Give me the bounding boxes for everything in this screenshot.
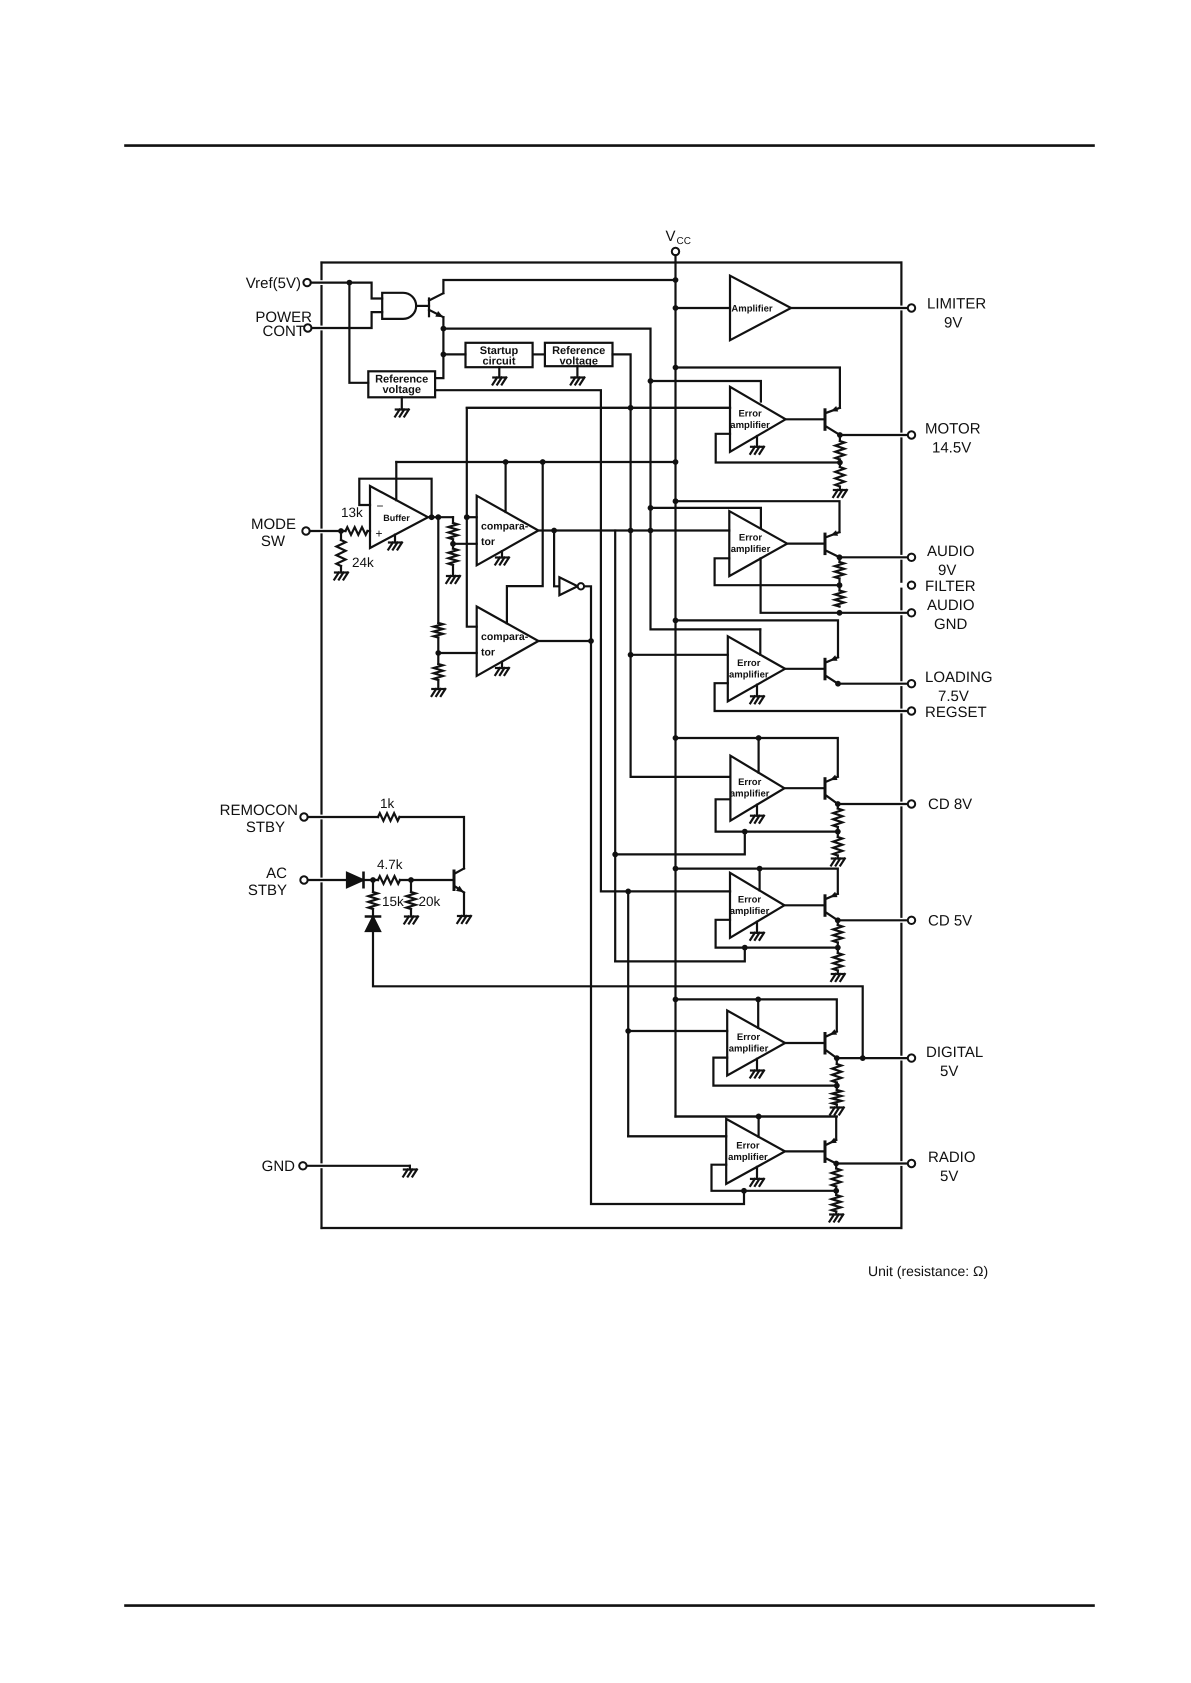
error amplifier LOADING — [728, 636, 785, 701]
wire reference entry MOTOR — [651, 381, 761, 402]
pin GND — [262, 1158, 307, 1175]
svg-text:LOADING: LOADING — [925, 669, 993, 686]
wire Vcc feed MOTOR — [676, 368, 840, 408]
resistor divider CD5V upper — [833, 920, 842, 950]
svg-text:GND: GND — [262, 1158, 296, 1175]
wire Vcc to amplifier input — [676, 307, 731, 309]
error amplifier AUDIO — [729, 511, 787, 576]
net V4: CD5V input rail down to DIGITAL / RADIO inputs — [625, 891, 726, 1136]
svg-text:20k: 20k — [419, 894, 441, 909]
wire reference entry CD8V — [756, 735, 762, 773]
node DIGITAL output junction — [860, 1055, 866, 1061]
wire Vcc feed DIGITAL — [676, 999, 837, 1031]
wire buffer output to comparator 2 input — [467, 517, 477, 627]
wire input DIGITAL — [628, 1030, 727, 1032]
wire Buffer feedback loop — [359, 479, 431, 518]
svg-text:MOTOR: MOTOR — [925, 421, 981, 438]
comparator 2 — [477, 607, 539, 676]
pin RADIO 5V — [908, 1149, 976, 1185]
svg-text:RADIO: RADIO — [928, 1149, 976, 1166]
svg-text:5V: 5V — [940, 1063, 958, 1080]
pin MODE SW — [251, 516, 310, 550]
wire reference entry DIGITAL — [755, 997, 761, 1028]
pin LOADING 7.5V — [908, 669, 993, 705]
wire MODE SW — [310, 528, 346, 534]
svg-text:voltage: voltage — [382, 384, 421, 396]
svg-text:DIGITAL: DIGITAL — [926, 1044, 983, 1061]
ground under CD8V amplifier — [750, 805, 764, 823]
wire AND output to Q1 base — [416, 305, 429, 307]
wire feedback CD8V — [716, 799, 838, 831]
wire input LOADING — [631, 654, 728, 656]
node DIGITAL output — [834, 1055, 908, 1061]
wire 1k to Q2 collector — [400, 817, 465, 869]
wire bias to buffer top — [395, 462, 397, 500]
wire reference entry CD5V — [757, 866, 763, 891]
svg-text:STBY: STBY — [248, 882, 287, 899]
ground under reference voltage (left) — [395, 397, 409, 416]
ground under Buffer — [388, 535, 402, 550]
resistor divider chain A upper — [448, 517, 457, 546]
svg-text:CONT: CONT — [263, 323, 306, 340]
pin CD 8V — [908, 796, 972, 813]
error amplifier DIGITAL — [727, 1011, 785, 1076]
svg-text:CC: CC — [677, 236, 691, 247]
pin FILTER — [908, 578, 976, 595]
node RADIO output — [833, 1161, 908, 1167]
resistor divider RADIO lower — [832, 1191, 841, 1215]
error amplifier MOTOR — [730, 387, 786, 452]
ground under LOADING amplifier — [750, 685, 764, 704]
Vcc pin — [666, 228, 691, 255]
wire buffer output to comparator 1 input — [467, 516, 477, 518]
resistor divider MOTOR lower — [835, 463, 844, 491]
node CD8V output — [835, 801, 908, 807]
svg-text:compara-: compara- — [481, 631, 529, 643]
svg-text:9V: 9V — [938, 562, 956, 579]
transistor Q2 — [454, 869, 464, 917]
wire comparator 1 output — [538, 528, 729, 534]
wire input MOTOR — [467, 407, 730, 409]
wire divider A tap to comparator 1 — [453, 543, 477, 545]
svg-text:CD 8V: CD 8V — [928, 796, 972, 813]
svg-text:V: V — [666, 228, 676, 245]
resistor divider CD5V lower — [833, 948, 842, 974]
pin REMOCON STBY — [220, 802, 308, 836]
reference voltage block (upper) — [545, 343, 613, 368]
startup circuit block — [466, 343, 533, 368]
svg-text:Error: Error — [737, 658, 761, 669]
svg-text:REMOCON: REMOCON — [220, 802, 298, 819]
svg-text:15k: 15k — [382, 894, 404, 909]
svg-text:amplifier: amplifier — [728, 1152, 768, 1163]
wire feedback AUDIO — [715, 558, 840, 585]
error amplifier CD8V — [730, 756, 785, 821]
wire comparator 1 output to inverter — [554, 531, 559, 587]
op-amp Buffer — [370, 486, 428, 548]
svg-text:CD 5V: CD 5V — [928, 913, 972, 930]
transistor AUDIO — [825, 530, 840, 557]
node AUDIO output — [837, 554, 908, 560]
ground under divider B — [432, 688, 445, 690]
ground under comparator 1 — [495, 551, 509, 564]
ground under divider MOTOR — [834, 489, 847, 491]
svg-text:13k: 13k — [341, 505, 363, 520]
diode D1 — [308, 873, 378, 887]
svg-text:GND: GND — [934, 616, 968, 633]
pin POWER CONT — [255, 309, 312, 340]
wire AUDIO ground to AUDIO GND pin — [761, 558, 908, 615]
svg-text:Error: Error — [737, 1032, 761, 1043]
svg-text:Error: Error — [738, 408, 762, 419]
wire buffer output to MOTOR error amp input — [467, 408, 730, 517]
resistor 15k — [368, 880, 404, 917]
svg-text:tor: tor — [481, 536, 495, 548]
ground under Q2 — [458, 915, 471, 917]
pin AUDIO 9V — [908, 543, 975, 579]
ground under RADIO amplifier — [750, 1167, 764, 1186]
wire feedback DIGITAL — [713, 1058, 836, 1086]
ground under divider CD5V — [832, 973, 845, 975]
svg-text:amplifier: amplifier — [730, 789, 770, 800]
wire Vcc feed AUDIO — [676, 501, 840, 532]
net V1: left ref voltage to CD5V input — [435, 390, 730, 894]
svg-text:Error: Error — [739, 533, 763, 544]
net V6: inverter output rail — [584, 586, 747, 1204]
svg-text:24k: 24k — [352, 555, 374, 570]
wire Vref to AND gate — [311, 280, 382, 299]
node Buffer output — [428, 514, 470, 520]
svg-text:−: − — [377, 499, 384, 513]
bias bus wire — [396, 459, 675, 465]
svg-text:FILTER: FILTER — [925, 578, 976, 595]
wire divider B tap to comparator 2 — [438, 652, 476, 654]
svg-text:MODE: MODE — [251, 516, 296, 533]
ground under divider A — [447, 575, 460, 577]
pin CD 5V — [908, 913, 972, 930]
transistor DIGITAL — [825, 1029, 837, 1058]
wire CD8V amp output — [784, 787, 825, 789]
svg-text:9V: 9V — [944, 315, 962, 332]
diode D2 — [366, 917, 380, 932]
pin AC STBY — [248, 865, 308, 899]
wire to startup circuit — [443, 353, 465, 355]
net V5: Q1 emitter reference rail — [443, 329, 760, 630]
svg-text:14.5V: 14.5V — [932, 440, 971, 457]
wire LOADING amp output — [785, 668, 825, 670]
resistor divider CD8V lower — [833, 832, 842, 859]
error amplifier RADIO — [726, 1119, 785, 1184]
wire input CD5V — [729, 890, 731, 892]
wire Vcc feed CD8V — [676, 738, 838, 777]
transistor LOADING — [825, 655, 838, 683]
IC block boundary — [322, 263, 902, 1229]
ground under DIGITAL amplifier — [750, 1059, 764, 1078]
ground under divider DIGITAL — [831, 1106, 844, 1108]
resistor divider AUDIO lower — [835, 585, 844, 606]
resistor 1k — [308, 796, 400, 821]
wire bias to comparator 2 top — [507, 462, 543, 623]
wire Vref to reference voltage block — [349, 283, 368, 383]
amplifier (LIMITER) — [730, 276, 791, 341]
ground under MOTOR amplifier — [750, 436, 764, 454]
svg-text:Error: Error — [736, 1140, 760, 1151]
wire DIGITAL amp output — [785, 1042, 825, 1044]
svg-text:STBY: STBY — [246, 819, 285, 836]
wire CD5V amp output — [784, 904, 825, 906]
wire POWER CONT to AND gate — [312, 312, 383, 328]
net V3: reference voltage rail down to CD8V input — [613, 354, 731, 777]
wire Vcc feed LOADING — [676, 620, 839, 657]
transistor RADIO — [825, 1138, 837, 1164]
ground under CD5V amplifier — [750, 922, 764, 940]
resistor divider AUDIO upper — [835, 557, 844, 588]
resistor divider DIGITAL lower — [832, 1086, 841, 1108]
wire feedback CD5V — [716, 920, 838, 948]
svg-text:Vref(5V): Vref(5V) — [246, 275, 301, 292]
comparator 1 — [477, 496, 539, 566]
svg-text:Buffer: Buffer — [383, 513, 410, 523]
wire D2 to DIGITAL output — [373, 931, 863, 1058]
svg-text:REGSET: REGSET — [925, 704, 987, 721]
reference voltage block (left) — [368, 371, 435, 397]
pin LIMITER 9V — [908, 296, 987, 332]
wire Q1 emitter node — [435, 317, 446, 378]
wire feedback MOTOR — [716, 434, 840, 463]
pin AUDIO GND — [908, 597, 975, 633]
AND gate — [382, 293, 416, 319]
wire reference entry AUDIO — [651, 508, 761, 528]
transistor CD5V — [825, 892, 838, 921]
wire input CD8V — [729, 776, 731, 778]
svg-text:+: + — [376, 527, 383, 541]
error amplifier CD5V — [730, 873, 785, 938]
ground under startup circuit — [493, 367, 507, 384]
ground under reference voltage (upper) — [571, 366, 585, 384]
resistor divider chain B lower — [434, 653, 443, 689]
wire Q1 collector to Vcc rail — [443, 280, 675, 293]
wire Vcc feed RADIO — [676, 1117, 837, 1140]
svg-text:7.5V: 7.5V — [938, 688, 969, 705]
wire comparator 2 output — [538, 640, 591, 642]
transistor CD8V — [825, 775, 838, 804]
resistor divider chain B upper — [434, 517, 443, 656]
wire Vcc feed CD5V — [676, 869, 838, 894]
pin MOTOR 14.5V — [908, 421, 981, 457]
resistor 24k — [336, 531, 374, 573]
resistor 4.7k — [377, 857, 454, 884]
svg-text:SW: SW — [261, 533, 286, 550]
ground under divider RADIO — [830, 1213, 843, 1215]
wire GND — [307, 1166, 410, 1170]
svg-text:amplifier: amplifier — [729, 669, 769, 680]
transistor MOTOR — [825, 406, 840, 435]
svg-text:Error: Error — [738, 777, 762, 788]
resistor divider CD8V upper — [833, 804, 842, 834]
svg-text:amplifier: amplifier — [731, 544, 771, 555]
net V2: comparator output to CD feedback taps — [612, 531, 747, 962]
wire reference entry RADIO — [756, 1114, 762, 1137]
wire bias to comparator 1 top — [505, 462, 507, 512]
resistor 13k — [341, 505, 370, 535]
wire input RADIO — [628, 1135, 726, 1137]
wire input AUDIO — [728, 529, 730, 531]
wire LOADING feedback to REGSET — [715, 683, 908, 711]
pin DIGITAL 5V — [908, 1044, 983, 1080]
svg-text:AUDIO: AUDIO — [927, 543, 975, 560]
ground symbol GND — [404, 1168, 417, 1170]
svg-text:1k: 1k — [380, 796, 395, 811]
svg-text:voltage: voltage — [559, 356, 598, 368]
pin REGSET — [908, 704, 987, 721]
wire RADIO amp output — [785, 1150, 825, 1152]
resistor divider MOTOR upper — [835, 435, 844, 465]
svg-text:Amplifier: Amplifier — [731, 304, 772, 315]
ground under 20k — [405, 915, 418, 917]
wire reference entry LOADING — [759, 629, 761, 654]
wire AUDIO amp output — [787, 542, 825, 544]
svg-text:AC: AC — [266, 865, 287, 882]
svg-text:amplifier: amplifier — [730, 420, 770, 431]
inverter — [559, 577, 584, 595]
svg-text:LIMITER: LIMITER — [927, 296, 986, 313]
wire feedback RADIO — [712, 1165, 837, 1191]
ground under divider CD8V — [832, 857, 845, 859]
svg-text:circuit: circuit — [482, 356, 515, 368]
node MOTOR output — [837, 432, 908, 438]
Vcc supply rail — [673, 255, 837, 1119]
svg-text:Error: Error — [738, 894, 762, 905]
svg-text:amplifier: amplifier — [730, 906, 770, 917]
svg-text:compara-: compara- — [481, 521, 529, 533]
ground under comparator 2 — [495, 662, 509, 675]
ground under 24k — [335, 571, 348, 573]
node CD5V output — [835, 917, 908, 923]
wire MOTOR amp output — [786, 418, 825, 420]
svg-text:AUDIO: AUDIO — [927, 597, 975, 614]
svg-text:tor: tor — [481, 647, 495, 659]
page top rule — [126, 144, 1094, 147]
resistor divider DIGITAL upper — [832, 1058, 841, 1088]
pin Vref(5V) — [246, 275, 311, 292]
resistor divider RADIO upper — [832, 1164, 841, 1194]
transistor Q1 — [429, 293, 443, 317]
wire amplifier output to LIMITER pin — [791, 307, 908, 309]
page bottom rule — [126, 1604, 1094, 1607]
resistor divider chain A lower — [448, 544, 457, 576]
resistor 20k — [406, 880, 440, 917]
svg-text:5V: 5V — [940, 1168, 958, 1185]
svg-text:Unit (resistance: Ω): Unit (resistance: Ω) — [868, 1263, 988, 1279]
svg-text:4.7k: 4.7k — [377, 857, 403, 872]
svg-text:amplifier: amplifier — [729, 1044, 769, 1055]
node LOADING output — [835, 681, 908, 687]
wire startup to reference voltage — [533, 353, 545, 355]
